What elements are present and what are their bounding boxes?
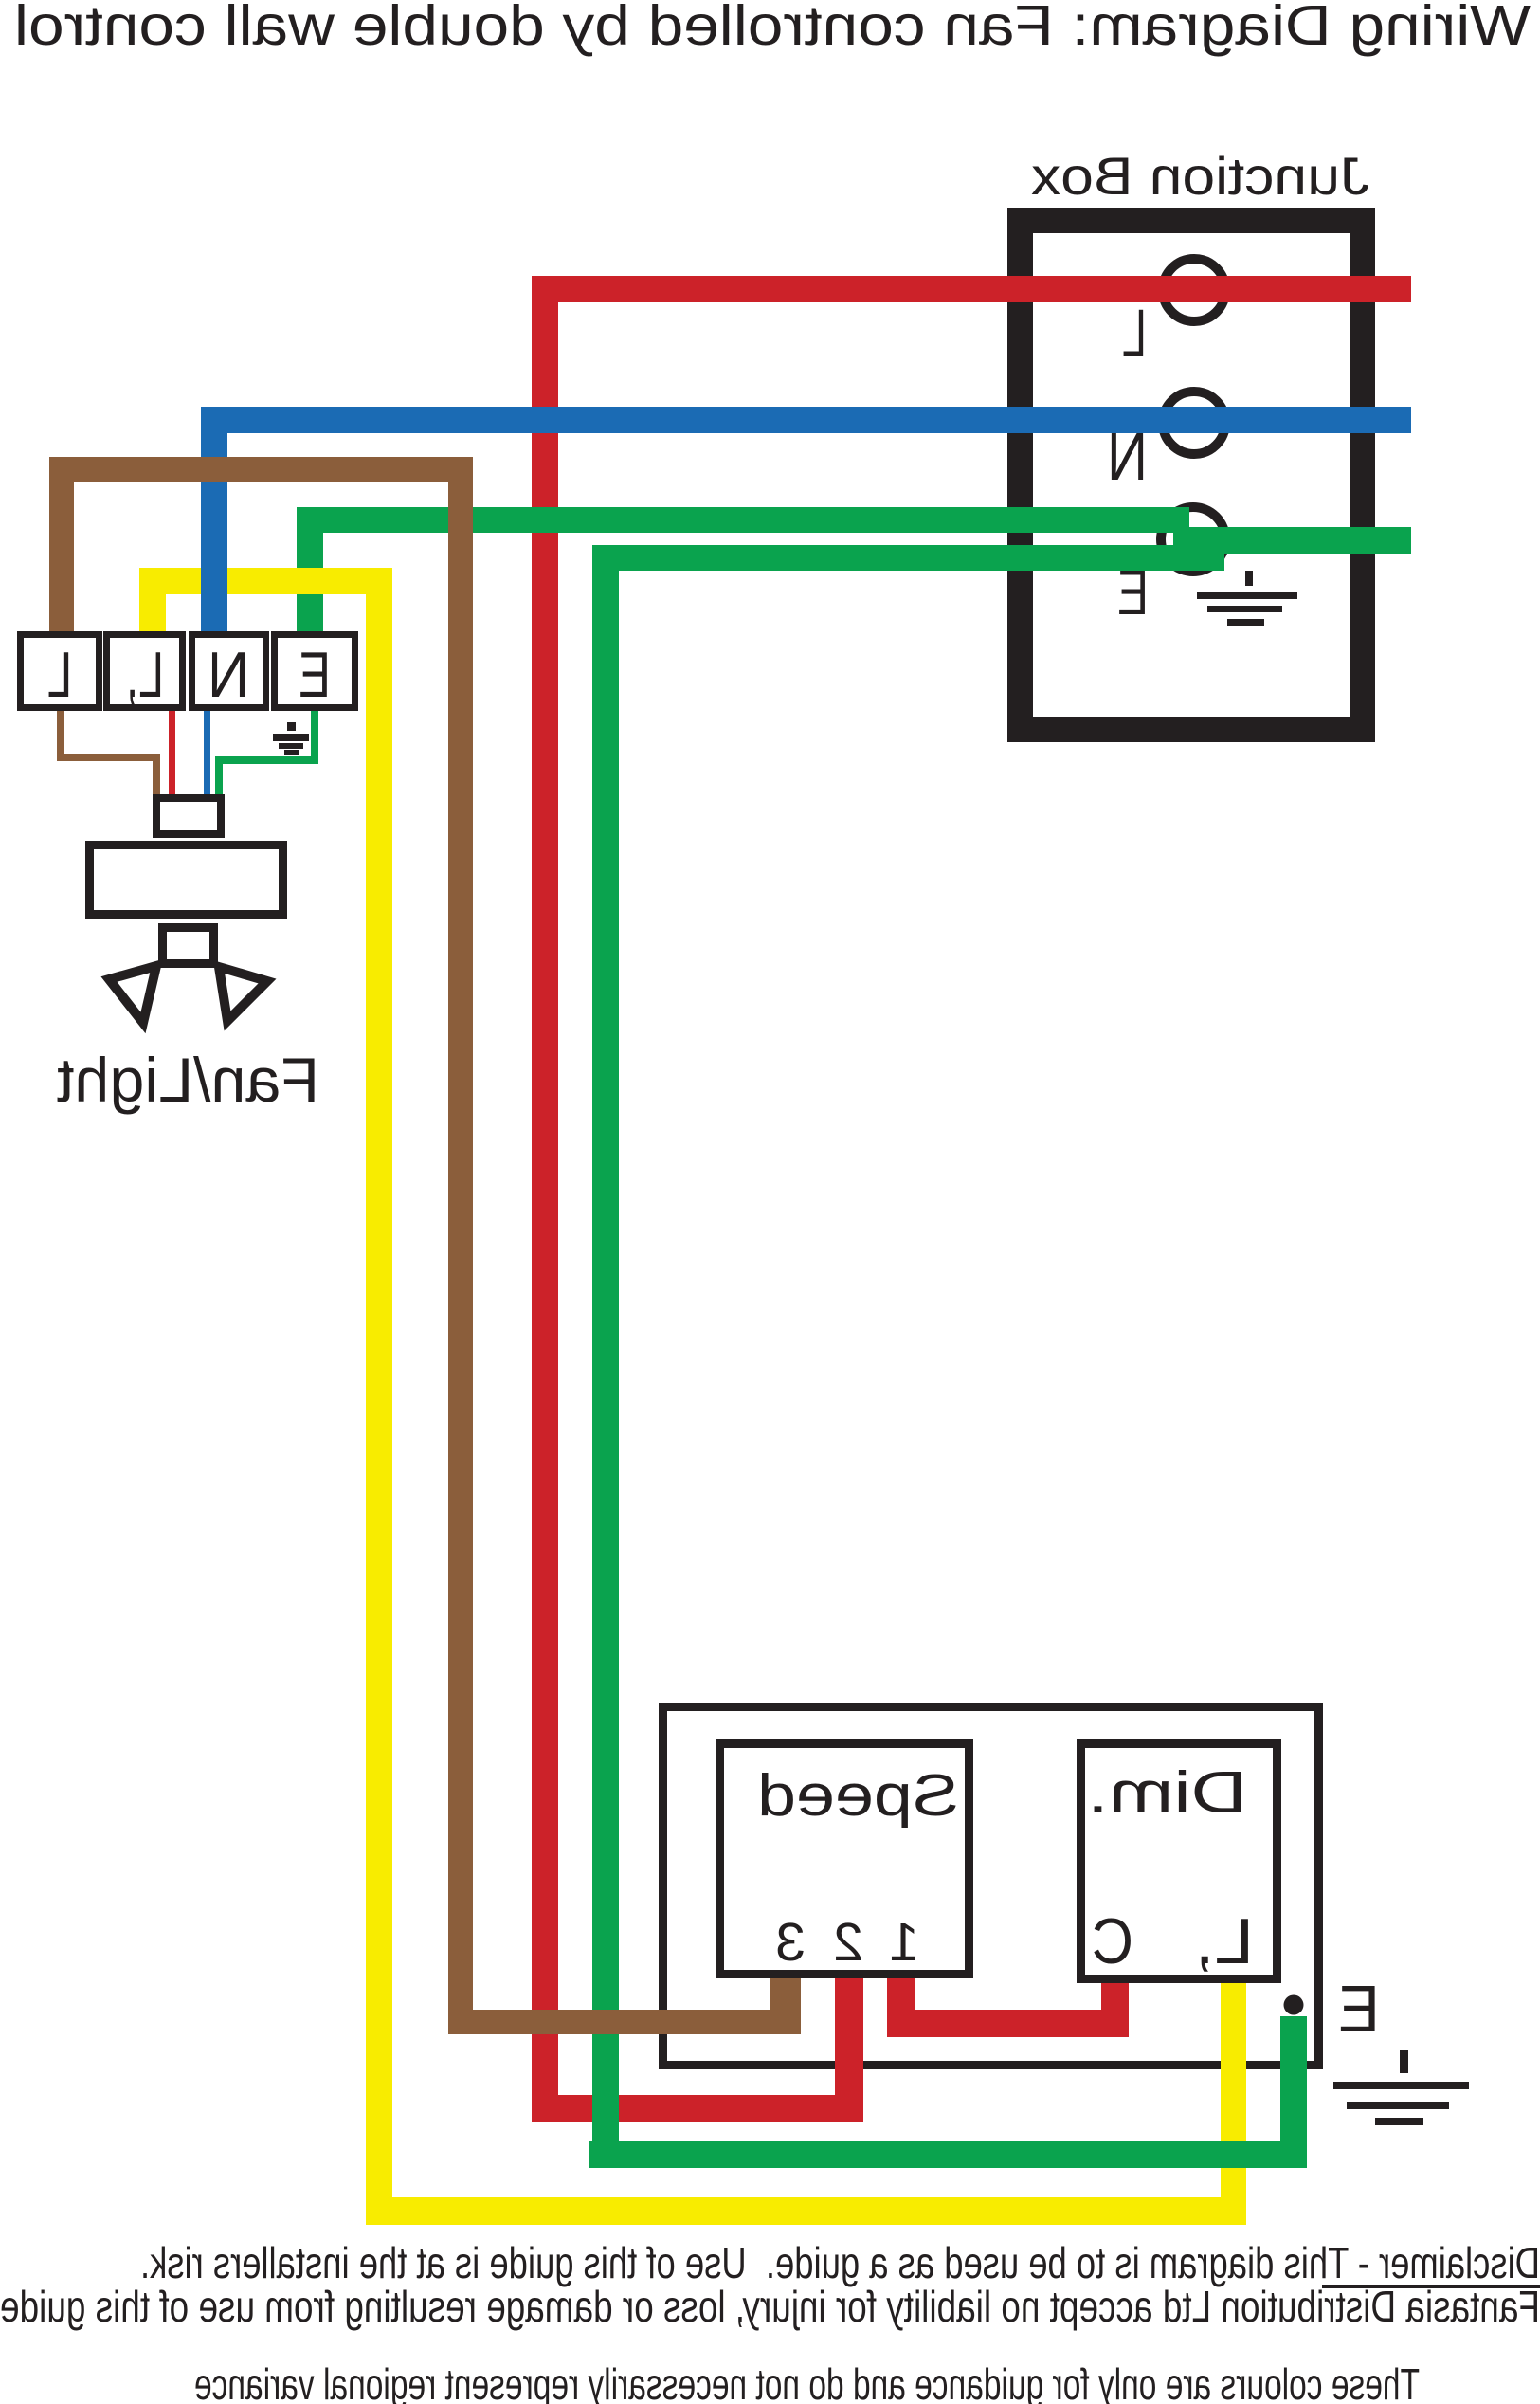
terminal N circle — [1163, 392, 1225, 454]
wire red dim terminal C vertical — [1101, 1983, 1129, 2037]
wire green earth merged horizontal — [1173, 527, 1411, 554]
thin wire brown — [57, 711, 160, 794]
speed box — [720, 1744, 969, 1975]
disclaimer underline — [1322, 2285, 1540, 2288]
wire red live bottom horizontal — [532, 2095, 860, 2122]
fan blade left — [219, 967, 267, 1021]
wire brown short vertical to fan L2 — [49, 457, 74, 631]
svg-text:Junction Box: Junction Box — [1031, 146, 1369, 206]
wire blue neutral horizontal — [201, 407, 1411, 433]
svg-text:Wiring Diagram: Fan controlled: Wiring Diagram: Fan controlled by double… — [14, 0, 1531, 57]
wire yellow short vertical to fan L1 — [139, 568, 166, 631]
wire green earth long vertical — [592, 545, 619, 2168]
junction box — [1021, 221, 1363, 730]
wire green earth bottom horizontal — [589, 2141, 1307, 2168]
wire green earth upper horizontal — [297, 507, 1189, 533]
wire red speed terminal 2 vertical — [835, 1978, 863, 2122]
wall control outer box — [663, 1707, 1319, 2066]
svg-text:L,: L, — [126, 639, 164, 711]
fan body — [90, 846, 283, 915]
wire brown top horizontal — [49, 457, 473, 482]
svg-text:L: L — [1122, 297, 1147, 372]
svg-text:N: N — [208, 639, 249, 711]
svg-text:E: E — [1338, 1972, 1380, 2046]
terminal E circle — [1161, 507, 1225, 572]
svg-text:Speed: Speed — [757, 1763, 959, 1829]
fan hub square — [163, 928, 214, 964]
wire red link speed to dim horizontal — [887, 2010, 1129, 2037]
wire brown long vertical — [448, 457, 473, 2034]
wire green earth vertical to fan E — [297, 507, 323, 631]
svg-text:L,: L, — [1195, 1905, 1254, 1977]
fan terminal block box E — [275, 635, 355, 708]
fan terminal block box L1 — [107, 635, 183, 708]
svg-text:E: E — [299, 639, 331, 711]
wire red live horizontal from junction box L — [532, 276, 1411, 302]
svg-text:Dim.: Dim. — [1087, 1760, 1247, 1826]
fan terminal block box L2 — [21, 635, 100, 708]
terminal L circle — [1163, 259, 1225, 321]
wire red speed terminal 1 vertical — [887, 1978, 915, 2037]
thin wire red — [169, 711, 175, 794]
svg-text:These colours are only for gui: These colours are only for guidance and … — [194, 2359, 1420, 2404]
svg-text:2: 2 — [833, 1912, 863, 1973]
wire green earth lower horizontal — [592, 545, 1224, 571]
svg-text:L: L — [47, 639, 72, 711]
wire red live long vertical — [532, 276, 558, 2122]
wire brown bottom horizontal — [448, 2010, 801, 2034]
svg-text:C: C — [1092, 1905, 1133, 1977]
wire brown speed terminal 3 vertical — [770, 1978, 801, 2034]
wire yellow top horizontal — [139, 568, 392, 594]
svg-text:Fan/Light: Fan/Light — [57, 1045, 319, 1115]
junction box ground symbol — [1197, 571, 1297, 626]
svg-text:1: 1 — [889, 1912, 919, 1973]
wire blue neutral vertical to fan N — [201, 407, 227, 631]
svg-text:Fantasia Distribution Ltd acce: Fantasia Distribution Ltd accept no liab… — [0, 2282, 1540, 2331]
thin wire green — [215, 711, 318, 794]
fan connector box — [156, 798, 221, 834]
earth ground symbol — [1333, 2050, 1469, 2125]
wire yellow long vertical — [366, 568, 392, 2225]
wire yellow dim terminal L vertical — [1221, 1983, 1246, 2225]
fan terminal block box N — [192, 635, 266, 708]
svg-text:3: 3 — [775, 1912, 806, 1973]
thin wire blue — [204, 711, 210, 794]
svg-text:Disclaimer - This diagram is t: Disclaimer - This diagram is to be used … — [140, 2238, 1540, 2287]
fan earth mini symbol — [273, 722, 309, 755]
junction node dot — [1284, 1995, 1304, 2015]
wire yellow bottom horizontal — [366, 2197, 1246, 2225]
dimmer box — [1081, 1744, 1277, 1979]
wire green earth stub vertical — [1280, 2016, 1307, 2168]
fan blade right — [109, 966, 156, 1023]
